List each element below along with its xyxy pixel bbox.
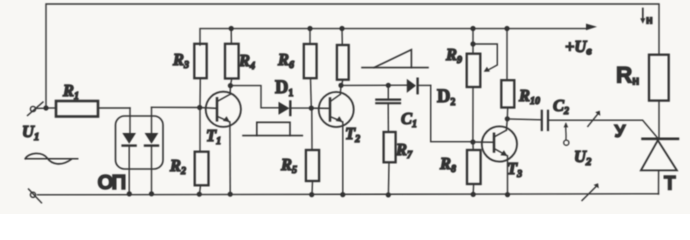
node: T1 collector / R4 [228, 83, 233, 88]
node: R7 to bottom rail [386, 192, 391, 197]
wire: top rail from input up and across to load [46, 4, 659, 108]
wire: D2 to T3 base junction [431, 85, 473, 141]
wire: T1 collector to D1 [230, 86, 278, 108]
svg-text:U1: U1 [22, 122, 39, 143]
svg-text:ОП: ОП [98, 171, 126, 194]
resistor (T2 collector, unlabeled) [337, 29, 349, 86]
resistor R3 [194, 44, 206, 108]
svg-text:T3: T3 [507, 159, 522, 180]
svg-text:R5: R5 [280, 155, 297, 176]
svg-text:R8: R8 [439, 154, 456, 175]
svg-text:C2: C2 [553, 96, 569, 117]
node: T2 emitter at bottom rail [340, 192, 345, 197]
node: left diode to bottom rail [127, 191, 132, 196]
svg-text:+Uв: +Uв [565, 37, 592, 58]
svg-text:U2: U2 [574, 147, 592, 168]
node: R5 to bottom rail [309, 192, 314, 197]
resistor R5 [306, 108, 319, 195]
resistor R9 (trimmer) [467, 29, 481, 142]
svg-text:T1: T1 [206, 126, 221, 147]
node: T3 base / R8 / R9 / D2 junction [470, 139, 475, 144]
node: R4 on +Ub rail [229, 26, 234, 31]
svg-text:R10: R10 [518, 86, 540, 107]
resistor R8 [467, 142, 481, 194]
wire: T3 emitter to bottom rail [507, 156, 509, 195]
wire: R9 wiper arrow [473, 44, 497, 72]
node: R9 wiper tap [470, 41, 475, 46]
node: right diode to bottom rail [149, 191, 154, 196]
node: T2 collector node [338, 83, 343, 88]
node: T3 emitter at bottom rail [505, 192, 510, 197]
svg-text:R1: R1 [62, 81, 79, 102]
sine wave symbol [25, 153, 77, 163]
resistor R7 [384, 132, 396, 195]
svg-text:R6: R6 [277, 50, 294, 71]
node: T3 collector / R10 / C2 junction [505, 116, 510, 121]
svg-text:T2: T2 [345, 124, 360, 145]
sawtooth waveform symbol [362, 50, 428, 68]
U2 measurement arrow mark [564, 122, 569, 145]
transistor T1 [200, 86, 241, 127]
node: T2 base / R6 / R5 / D1 junction [309, 106, 314, 111]
thyristor T [641, 139, 678, 194]
wire: photodiode to T1 base node [152, 106, 200, 108]
load resistor Rn [649, 55, 669, 138]
input terminal (bottom) [29, 189, 42, 203]
pulse arrow on gate wire [588, 111, 601, 127]
svg-text:У: У [615, 121, 627, 141]
svg-text:R4: R4 [238, 51, 255, 72]
+Ub supply arrow [586, 24, 597, 31]
wire: T2 collector to C1 and D2 [341, 84, 407, 86]
wire: +Ub rail [200, 29, 586, 45]
slash mark on bottom rail [582, 183, 599, 200]
resistor R1 [46, 101, 130, 117]
svg-text:D2: D2 [437, 87, 455, 108]
wire: collector node to C2 [507, 118, 541, 121]
resistor R10 [501, 29, 514, 119]
optocoupler box OP [116, 116, 164, 169]
transistor T2 [311, 85, 353, 127]
capacitor C2 [542, 111, 548, 130]
wire: T2 emitter to bottom rail [342, 122, 344, 195]
node: R6 on +Ub rail [307, 26, 312, 31]
wire: bottom rail [38, 194, 659, 195]
input terminal (top) [28, 102, 47, 116]
pulse waveform symbol [243, 122, 302, 135]
transistor T3 [473, 119, 517, 162]
svg-text:Rн: Rн [616, 63, 639, 88]
svg-text:R7: R7 [395, 140, 413, 161]
svg-text:R9: R9 [445, 45, 462, 66]
capacitor C1 [376, 85, 400, 132]
optocoupler LED (left diode) [122, 108, 136, 194]
node: T1 emitter at bottom rail [228, 192, 233, 197]
svg-text:C1: C1 [401, 109, 417, 130]
optocoupler photodiode (right diode) [145, 107, 159, 194]
node: R8 to bottom rail [471, 192, 476, 197]
diode D1 [279, 102, 312, 116]
resistor R4 [225, 28, 239, 85]
node: R10 on +Ub rail [504, 26, 509, 31]
svg-text:R2: R2 [169, 156, 186, 177]
svg-text:Т: Т [664, 174, 676, 195]
node: R2 to bottom rail [197, 192, 202, 197]
svg-text:R3: R3 [172, 50, 189, 71]
resistor R2 [195, 108, 209, 195]
diode D2 [407, 79, 431, 94]
wire: C2 to thyristor gate [549, 120, 658, 138]
current arrow In [640, 9, 645, 24]
node: collector resistor on +Ub rail [339, 26, 344, 31]
node: T1 base / R3 / R2 junction [197, 105, 202, 110]
wire: T1 emitter to bottom rail [229, 122, 231, 194]
node: C1 top junction [386, 83, 391, 88]
svg-text:D1: D1 [275, 78, 293, 99]
svg-text:н: н [646, 15, 653, 27]
node: R9 on +Ub rail [470, 26, 475, 31]
resistor R6 [304, 29, 317, 109]
node: junction of input, R1 and top rail [43, 105, 48, 110]
